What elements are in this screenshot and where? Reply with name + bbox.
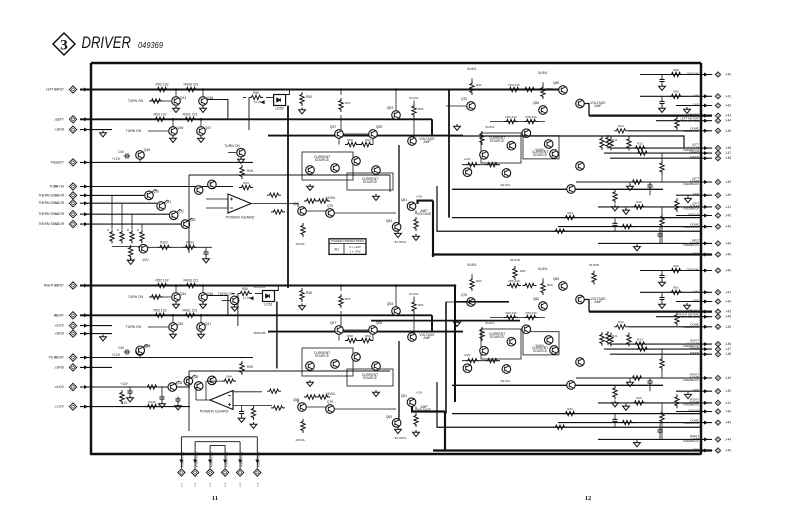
transistor Q77 (576, 162, 585, 171)
svg-text:R56: R56 (242, 287, 248, 291)
svg-text:TURN ON: TURN ON (128, 295, 144, 299)
resistor F56 (507, 283, 521, 287)
ground below Q63 (395, 231, 402, 237)
capacitor C65 (612, 221, 617, 227)
svg-text:J-46: J-46 (725, 146, 731, 150)
resistor R25 (553, 425, 567, 429)
resistor R15 (630, 180, 644, 184)
svg-text:FEEDBACK: FEEDBACK (683, 403, 699, 407)
wire R56 left (232, 293, 263, 326)
transistor Q73 (502, 169, 511, 178)
resistor R13 (633, 342, 647, 346)
wire Q46 emitter link (207, 100, 228, 119)
svg-text:54.8VL: 54.8VL (535, 344, 545, 348)
svg-text:+7V: +7V (416, 195, 423, 199)
wire q59 row (298, 204, 396, 214)
svg-text:POWER GUARD: POWER GUARD (195, 451, 198, 467)
transistor Q70 voltage amp (576, 295, 585, 304)
wire lower trunk x446 (445, 302, 447, 414)
current source box 4 (523, 136, 559, 159)
resistor R25 (553, 229, 567, 233)
current source box 3 (481, 133, 521, 163)
connector J-21 RIGHT (R) (69, 312, 76, 319)
svg-text:R64: R64 (547, 87, 553, 91)
wire q61 link (398, 341, 400, 419)
capacitor C40 (124, 349, 130, 354)
ground below box1 (307, 380, 314, 386)
svg-text:SOURCE: SOURCE (363, 180, 378, 184)
svg-text:FEEDBACK: FEEDBACK (683, 129, 699, 133)
resistor R41 vert (606, 331, 610, 345)
svg-text:R12: R12 (618, 320, 624, 324)
svg-text:R48: R48 (247, 365, 253, 369)
ground below R32 (612, 401, 619, 407)
transistor Q71 (550, 150, 559, 159)
transistor Q52 (372, 166, 381, 175)
svg-text:J-52: J-52 (195, 482, 197, 487)
resistor R60 (412, 104, 416, 118)
svg-text:GND: GND (693, 299, 699, 303)
connector J-411 RIGHT 8 OHM FEEDBACK (715, 400, 720, 405)
svg-text:Q44: Q44 (180, 96, 187, 100)
wire GND row (R) (676, 301, 712, 303)
ground below Q46 (200, 302, 207, 308)
transistor Q67 (480, 347, 489, 356)
transistor Q47 (200, 119, 202, 127)
resistor R46 (267, 389, 281, 393)
wire GND row (80, 129, 112, 131)
svg-text:DISTORTION: DISTORTION (681, 315, 699, 319)
wire y164 row (462, 164, 500, 166)
transistor Q63 (392, 419, 401, 428)
current source box 1 (302, 348, 353, 376)
svg-text:TURN ON: TURN ON (218, 292, 234, 296)
wire feedback box outline (189, 175, 390, 253)
wire RIGHT METER/ DISTORTION row (R) (656, 316, 712, 318)
svg-text:GND: GND (693, 388, 699, 392)
svg-text:F56 220: F56 220 (508, 83, 519, 87)
wire bank bottom (112, 246, 142, 249)
svg-text:049369: 049369 (138, 40, 163, 50)
connector J-12 GND (L) (69, 126, 76, 133)
title diamond with 3 (53, 33, 75, 55)
wire + FB/LINE row (L) (589, 114, 712, 116)
connector J-20 RIGHT INPUT (R) (69, 282, 76, 289)
wire turn-on to Q45 (148, 130, 168, 132)
transistor Q56 (331, 360, 340, 369)
svg-text:+24V: +24V (692, 93, 699, 97)
capacitor C80 (127, 389, 132, 395)
svg-text:-54.9VL: -54.9VL (500, 379, 511, 383)
resistor R31 vert (627, 137, 631, 151)
transistor Q71 (550, 346, 559, 355)
svg-text:R52 102: R52 102 (155, 279, 168, 283)
wire + FB/LINE row (R) (589, 310, 712, 312)
wire feedback y217 (452, 413, 701, 415)
wire LEFT 4 OHM FEEDBACK row (L) (576, 181, 712, 183)
transistor Q49 (136, 347, 145, 356)
connector J-42 GND (715, 103, 720, 108)
svg-text:R431 221: R431 221 (182, 308, 197, 312)
connector J-47 THERM SENSOR (L) (69, 211, 76, 218)
connector J-13 PG LEFT (L) (69, 159, 76, 166)
connector J-414 LEFT 2 OHM FEEDBACK (715, 241, 720, 246)
connector J-48 THERM SENSOR (L) (69, 220, 76, 227)
wire Q46 emitter link (207, 296, 228, 315)
connector J-11 LEFT (L) (69, 116, 76, 123)
transistor Q44 (175, 286, 177, 293)
svg-text:R430 221: R430 221 (183, 83, 198, 87)
svg-text:54.8VL: 54.8VL (535, 148, 545, 152)
transistor Q50 (turn-on) (237, 148, 246, 157)
svg-text:Q45: Q45 (177, 322, 184, 326)
transistor Q46 (202, 286, 204, 293)
svg-text:54.8VL: 54.8VL (467, 263, 477, 267)
resistor R58 (345, 142, 359, 146)
resistor F65 (524, 315, 538, 319)
svg-text:J-46: J-46 (725, 342, 731, 346)
svg-text:R54: R54 (365, 334, 371, 338)
transistor Q55 (369, 130, 378, 139)
svg-text:R430 221: R430 221 (183, 279, 198, 283)
svg-text:SOURCE: SOURCE (490, 335, 505, 339)
connector J-40 GND/24V (715, 72, 720, 77)
wire THERM SENSOR row (80, 213, 169, 215)
connector J-53 POWER GUARD (209, 458, 211, 468)
resistor F55 (523, 87, 537, 91)
transistor Q39 (208, 376, 217, 385)
resistor R57 (339, 294, 343, 308)
transistor Q55 (369, 326, 378, 335)
ground (GND row) (100, 131, 107, 137)
svg-text:J-2: J-2 (54, 284, 58, 288)
wire 2W+FB row (R) (604, 348, 712, 350)
svg-text:GND/+B: GND/+B (688, 409, 699, 413)
svg-text:J-44: J-44 (725, 241, 731, 245)
svg-text:J-1: J-1 (54, 117, 58, 121)
svg-text:R57: R57 (345, 101, 351, 105)
svg-text:AMP: AMP (423, 336, 431, 340)
wire feedback box outline (189, 371, 390, 431)
svg-text:54.8VL: 54.8VL (538, 267, 548, 271)
connector J-410 GND (715, 193, 720, 198)
transistor Q44 (175, 90, 177, 97)
transistor Q79 (326, 209, 335, 218)
resistor R58v (300, 288, 304, 302)
transistor Q51 voltage amp (408, 333, 417, 342)
ground R16 (623, 404, 630, 410)
transistor Q68 (559, 282, 568, 291)
svg-text:FEEDBACK: FEEDBACK (683, 182, 699, 186)
ground below Q47 (198, 332, 205, 338)
svg-text:J-45: J-45 (725, 449, 731, 453)
transistor Q78 (567, 381, 576, 390)
resistor R53 (153, 313, 167, 317)
ground below Q44 (173, 302, 180, 308)
wire trunk branch y136 (449, 136, 684, 148)
svg-text:2W+FB: 2W+FB (689, 346, 699, 350)
wire GND/+B row (L) (676, 215, 712, 217)
ground C80 (127, 396, 134, 402)
junction dots row1 (175, 88, 178, 91)
resistor R56 (LD drive) (238, 291, 252, 295)
svg-text:R56: R56 (253, 91, 259, 95)
connector J-44 LEFT METER/ DISTORTION (715, 118, 720, 123)
wire DOME FEEDBACK row (L) (558, 226, 712, 228)
svg-text:AMP: AMP (423, 140, 431, 144)
svg-text:Q45: Q45 (177, 126, 184, 130)
svg-text:J-45: J-45 (725, 325, 731, 329)
svg-text:AMP: AMP (594, 104, 602, 108)
connector J-413 DOME FEEDBACK (715, 224, 720, 229)
svg-text:R48: R48 (247, 169, 253, 173)
svg-text:J-45: J-45 (725, 253, 731, 257)
resistor R431 (183, 313, 197, 317)
resistor R48 (240, 165, 244, 179)
resistor R17 (620, 224, 634, 228)
svg-text:J-48: J-48 (725, 156, 731, 160)
resistor R59b (485, 359, 499, 363)
svg-text:GND/24V: GND/24V (687, 72, 699, 76)
connector J-49 LEFT 4 OHM FEEDBACK (715, 179, 720, 184)
wire left bus rail (90, 63, 92, 454)
capacitor C62 (661, 96, 663, 99)
wire turn-on to Q45 (148, 326, 168, 328)
ground below Q45 (170, 332, 177, 338)
svg-text:J-41: J-41 (725, 94, 731, 98)
resistor R14 (636, 151, 650, 155)
svg-text:2W+FB: 2W+FB (689, 150, 699, 154)
transistor Q54 (352, 353, 361, 362)
svg-text:R54: R54 (365, 138, 371, 142)
svg-text:Q79: Q79 (327, 204, 333, 208)
wire RIGHT row (80, 314, 432, 316)
svg-text:Q57: Q57 (330, 321, 337, 325)
svg-text:+12V: +12V (120, 382, 128, 386)
wire feedback y231 (437, 186, 701, 231)
connector J-27 -12V (R) (69, 403, 76, 410)
wire pg bracket inner (210, 445, 225, 458)
svg-text:J-51: J-51 (181, 482, 183, 487)
transistor Q36 (184, 377, 193, 386)
ground below R45v (250, 422, 257, 428)
resistor R15 (630, 376, 644, 380)
capacitor C82 (175, 397, 180, 403)
svg-text:SOURCE: SOURCE (315, 158, 330, 162)
wire GND row (R) (676, 390, 712, 392)
transistor Q75 (463, 168, 472, 177)
svg-text:1 = -24V: 1 = -24V (349, 249, 360, 253)
resistor R63 (316, 395, 330, 399)
resistor R54 (359, 142, 373, 146)
resistor R67 (414, 413, 418, 427)
resistor R56 (LD drive) (249, 95, 263, 99)
ground below R100 (127, 258, 134, 264)
svg-text:J-53: J-53 (210, 482, 212, 487)
resistor R32 vert (613, 386, 617, 400)
wire y189 link (452, 384, 663, 386)
svg-text:POWER GUARD: POWER GUARD (240, 451, 243, 467)
svg-text:J-41: J-41 (725, 401, 731, 405)
ground R15 (627, 184, 634, 190)
svg-text:R52 102: R52 102 (155, 83, 168, 87)
wire DOME FEEDBACK row (R) (558, 422, 712, 424)
resistor F56 (507, 87, 521, 91)
svg-text:R57: R57 (345, 297, 351, 301)
wire y121 row (490, 121, 545, 123)
svg-text:54.8VL: 54.8VL (538, 71, 548, 75)
wire pg bracket outer (181, 437, 257, 458)
ground C81 (159, 402, 166, 408)
wire LD to row1 (275, 286, 279, 291)
svg-text:R60: R60 (418, 107, 424, 111)
svg-text:Q63: Q63 (386, 219, 392, 223)
svg-text:Q53: Q53 (387, 106, 394, 110)
connector J-413 DOME FEEDBACK (715, 420, 720, 425)
svg-text:GND: GND (57, 332, 65, 336)
testpoint arrow at LD input (261, 100, 265, 104)
resistor R90 (669, 72, 683, 76)
resistor R60 (412, 300, 416, 314)
wire x455 branch to Q64 (455, 301, 509, 303)
resistor F55 (523, 283, 537, 287)
wire center trunk x449 (448, 90, 450, 218)
ground below Q44 (173, 106, 180, 112)
svg-text:F65 220: F65 220 (525, 311, 536, 315)
svg-text:C40: C40 (118, 150, 124, 154)
transistor Q66 (539, 106, 548, 115)
transistor Q49 (136, 151, 145, 160)
resistor R16 (632, 401, 646, 405)
connector J-48 DIF/FB (715, 156, 720, 161)
resistor R59b (485, 163, 499, 167)
wire LEFT 2 OHM FEEDBACK row (L) (598, 242, 712, 244)
svg-text:J-40: J-40 (725, 73, 731, 77)
transistor Q59 (298, 207, 307, 216)
wire DOME FEEDBACK row (L) (628, 130, 712, 132)
ground below box2 (373, 194, 380, 200)
svg-text:J-44: J-44 (725, 315, 731, 319)
optocoupler LD50 (274, 95, 286, 106)
transistor Q50 (turn-on) (230, 296, 239, 305)
resistor R47 (271, 210, 285, 214)
svg-text:GND/+B: GND/+B (688, 213, 699, 217)
svg-text:SOURCE: SOURCE (533, 349, 548, 353)
optocoupler LD51 (263, 291, 275, 302)
svg-text:FEEDBACK: FEEDBACK (683, 421, 699, 425)
ground C62 (659, 106, 666, 112)
svg-text:R16: R16 (636, 396, 642, 400)
svg-text:54.9VL: 54.9VL (409, 96, 419, 100)
connector J-414 RIGHT 2 OHM FEEDBACK (715, 437, 720, 442)
wire GND row (L) (433, 253, 712, 255)
wire turn-on to Q44 (150, 100, 171, 102)
svg-text:J-2: J-2 (54, 365, 58, 369)
current source box 1 (302, 152, 353, 180)
resistor R58 (345, 338, 359, 342)
wire bottom bus rail (90, 453, 701, 455)
wire center vertical x455 (lower half) (454, 286, 456, 402)
resistor R61 (304, 395, 318, 399)
wire q59 row (298, 400, 396, 410)
ground below R67 (413, 430, 420, 436)
wire 2W+FB row (L) (604, 152, 712, 154)
capacitor C64 (647, 183, 652, 189)
svg-text:J-54: J-54 (225, 482, 227, 487)
wire PG RIGHT row (80, 357, 253, 359)
transistor Q65 (522, 129, 531, 138)
svg-text:POWER GUARD: POWER GUARD (225, 451, 228, 467)
svg-text:R102: R102 (160, 240, 168, 244)
ground R15 (627, 380, 634, 386)
svg-text:-54.9VNL: -54.9VNL (394, 436, 407, 440)
resistor R17 (620, 420, 634, 424)
svg-text:J-47: J-47 (725, 347, 731, 351)
svg-text:R60: R60 (418, 303, 424, 307)
wire RIGHT 2 OHM FEEDBACK row (R) (598, 438, 712, 440)
junction dot x433 (432, 255, 435, 258)
connector J-54 POWER GUARD (224, 458, 226, 468)
transistor Q79 (326, 405, 335, 414)
wire pg bracket middle (195, 442, 240, 458)
svg-text:J-48: J-48 (725, 352, 731, 356)
connector J-46 RIGHT 0.7 OHM FEEDBACK (715, 341, 720, 346)
transistor Q53 (392, 111, 401, 120)
svg-text:GND: GND (693, 192, 699, 196)
svg-text:Q66: Q66 (533, 101, 539, 105)
transistor Q47 (200, 315, 202, 323)
transistor Q56 (331, 164, 340, 173)
transistor Q31 (157, 202, 166, 211)
transistor Q77 (576, 358, 585, 367)
wire row1/135 link (268, 119, 463, 135)
svg-text:FEEDBACK: FEEDBACK (683, 207, 699, 211)
connector J-47 2W+FB (715, 150, 720, 155)
wire RIGHT INPUT row (80, 285, 455, 287)
svg-text:MONO/B: MONO/B (254, 331, 266, 335)
transistor Q53 (392, 307, 401, 316)
connector J-25 GND (R) (69, 364, 76, 371)
ground GND row right (684, 107, 691, 113)
resistor R20 vert (600, 332, 604, 346)
transistor Q76 (467, 298, 476, 307)
resistor R20 vert (600, 136, 604, 150)
transistor Q33 (181, 220, 190, 229)
resistor RB1 (thermal bank) (110, 230, 114, 244)
svg-text:54.8VL: 54.8VL (467, 67, 477, 71)
svg-text:FEEDBACK: FEEDBACK (683, 378, 699, 382)
resistor R12 (614, 325, 628, 329)
svg-text:GND: GND (693, 252, 699, 256)
transistor Q76 (467, 102, 476, 111)
svg-text:DIF/FB: DIF/FB (690, 351, 699, 355)
svg-text:R62: R62 (476, 279, 482, 283)
svg-text:THERM SENSOR: THERM SENSOR (38, 222, 64, 226)
resistor R47 (271, 406, 285, 410)
resistor R61 (304, 199, 318, 203)
resistor R61v (480, 327, 484, 341)
resistor RB2 (thermal bank) (120, 230, 124, 244)
svg-text:+12V: +12V (112, 157, 121, 161)
transistor Q78 (567, 185, 576, 194)
resistor R54 (359, 338, 373, 342)
svg-text:R90: R90 (673, 264, 679, 268)
svg-text:GND: GND (57, 128, 65, 132)
svg-text:R92: R92 (673, 286, 679, 290)
resistor R44 (op-amp feedback) (239, 185, 253, 189)
svg-text:LD50: LD50 (275, 107, 283, 111)
svg-text:POWER CONNECTIONS: POWER CONNECTIONS (331, 239, 364, 243)
